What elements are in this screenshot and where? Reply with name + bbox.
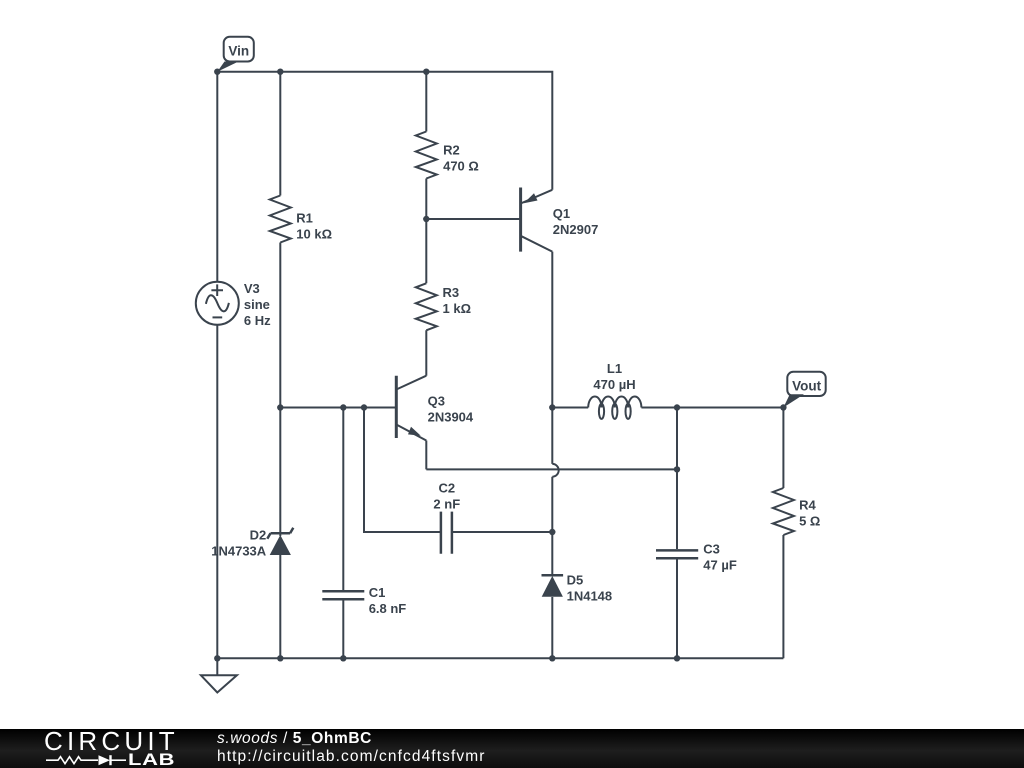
svg-text:Vout: Vout xyxy=(792,379,821,394)
svg-text:C3: C3 xyxy=(703,541,720,556)
svg-text:R1: R1 xyxy=(296,211,313,226)
svg-text:Q3: Q3 xyxy=(428,394,445,409)
svg-text:Q1: Q1 xyxy=(553,206,570,221)
svg-text:R3: R3 xyxy=(443,285,460,300)
svg-text:2 nF: 2 nF xyxy=(433,496,460,511)
svg-text:V3: V3 xyxy=(244,281,260,296)
svg-text:5 Ω: 5 Ω xyxy=(799,513,820,528)
svg-text:1N4148: 1N4148 xyxy=(567,589,613,604)
svg-text:6.8 nF: 6.8 nF xyxy=(369,601,407,616)
svg-text:C1: C1 xyxy=(369,585,386,600)
svg-text:470 Ω: 470 Ω xyxy=(443,159,479,174)
svg-text:C2: C2 xyxy=(438,480,455,495)
svg-text:D2: D2 xyxy=(250,527,267,542)
svg-text:1 kΩ: 1 kΩ xyxy=(443,301,472,316)
svg-text:10 kΩ: 10 kΩ xyxy=(296,227,332,242)
svg-text:6 Hz: 6 Hz xyxy=(244,313,271,328)
svg-text:R2: R2 xyxy=(443,143,460,158)
svg-text:sine: sine xyxy=(244,297,270,312)
svg-text:470 µH: 470 µH xyxy=(593,377,635,392)
svg-text:L1: L1 xyxy=(607,361,622,376)
svg-text:D5: D5 xyxy=(567,573,584,588)
svg-text:R4: R4 xyxy=(799,497,816,512)
svg-text:47 µF: 47 µF xyxy=(703,557,737,572)
svg-text:2N2907: 2N2907 xyxy=(553,222,599,237)
svg-text:Vin: Vin xyxy=(228,44,249,59)
svg-text:1N4733A: 1N4733A xyxy=(211,543,267,558)
svg-text:2N3904: 2N3904 xyxy=(428,410,474,425)
